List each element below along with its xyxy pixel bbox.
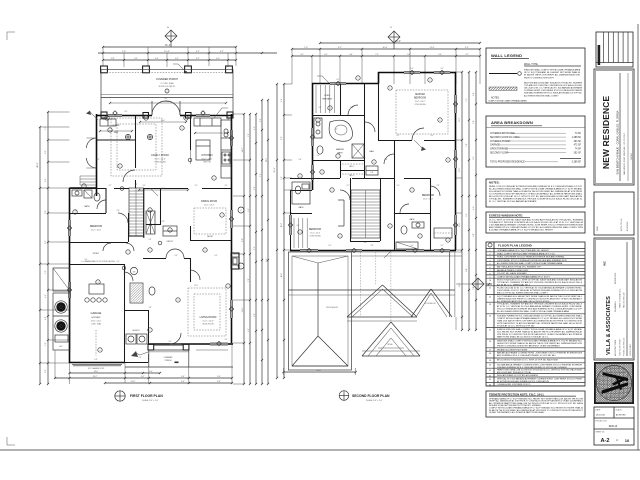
svg-text:5'-2": 5'-2" xyxy=(45,126,47,130)
svg-text:4'-2": 4'-2" xyxy=(196,51,200,53)
svg-text:3,289 SF: 3,289 SF xyxy=(572,162,582,164)
master tub xyxy=(329,120,352,141)
svg-text:LIVING ROOM: LIVING ROOM xyxy=(200,316,217,319)
nook walls xyxy=(190,240,231,242)
svg-text:9: 9 xyxy=(228,286,229,288)
svg-text:4'-4": 4'-4" xyxy=(473,206,475,210)
svg-text:W.I.C.: W.I.C. xyxy=(349,166,355,168)
svg-text:BEDROOM: BEDROOM xyxy=(90,226,102,228)
svg-text:6'-6": 6'-6" xyxy=(438,54,442,56)
svg-text:ARCH. REG. No: ARCH. REG. No xyxy=(620,218,623,231)
washer dryer xyxy=(126,334,136,344)
svg-text:4: 4 xyxy=(448,240,449,242)
svg-text:PRIOR TO CONSTRUCTION NOTIFY: PRIOR TO CONSTRUCTION NOTIFY xyxy=(524,77,554,79)
svg-text:GARAGE: GARAGE xyxy=(490,144,500,147)
kitchen top counter xyxy=(194,118,221,126)
svg-text:3: 3 xyxy=(98,282,99,284)
svg-text:PARTITIONS SHALL BE 2x4 WOOD S: PARTITIONS SHALL BE 2x4 WOOD STUDS AT 16… xyxy=(497,335,549,338)
svg-text:2'-2": 2'-2" xyxy=(109,185,112,187)
svg-text:OF 5.7 SQ FT MIN AND SILL HEIG: OF 5.7 SQ FT MIN AND SILL HEIGHT NOT MOR… xyxy=(524,71,581,74)
butler pantry xyxy=(163,226,177,236)
svg-text:6'-2": 6'-2" xyxy=(329,245,332,247)
FP2 outer walls xyxy=(312,83,330,85)
svg-text:3: 3 xyxy=(182,128,183,130)
svg-text:BATH: BATH xyxy=(85,205,91,208)
svg-text:293 SF: 293 SF xyxy=(574,141,582,143)
svg-text:5: 5 xyxy=(332,190,333,192)
balcony deck lines xyxy=(293,218,295,248)
family room ceiling fans xyxy=(125,134,130,139)
svg-text:COVE CEILING: COVE CEILING xyxy=(414,104,426,106)
svg-text:9406-10: 9406-10 xyxy=(609,426,618,428)
svg-text:6'-0": 6'-0" xyxy=(125,111,128,113)
svg-text:4'-4": 4'-4" xyxy=(45,294,47,298)
svg-text:6'-2": 6'-2" xyxy=(337,79,340,81)
second floor plan title xyxy=(339,391,349,401)
svg-text:5'-2": 5'-2" xyxy=(195,185,198,187)
logo VA letters rotated xyxy=(602,372,629,394)
svg-text:3'-0": 3'-0" xyxy=(143,185,146,187)
svg-text:4'-0": 4'-0" xyxy=(216,58,220,60)
svg-text:8'-0": 8'-0" xyxy=(45,150,47,154)
kitchen right counter xyxy=(221,120,231,178)
svg-text:WALL TYPE: WALL TYPE xyxy=(524,63,538,66)
svg-text:DATE:: DATE: xyxy=(596,408,602,411)
svg-text:23: 23 xyxy=(489,379,491,381)
svg-text:10'-8": 10'-8" xyxy=(281,222,283,227)
svg-text:EGRESS WINDOW NOTE:: EGRESS WINDOW NOTE: xyxy=(489,214,523,218)
svg-text:HALL: HALL xyxy=(370,150,375,153)
svg-text:1: 1 xyxy=(120,166,121,168)
svg-text:11'-2": 11'-2" xyxy=(266,158,268,163)
svg-text:5'-0": 5'-0" xyxy=(134,58,138,60)
svg-text:06-16-94: 06-16-94 xyxy=(596,414,606,416)
svg-text:OF ANY DISCREPANCY ALL INTERIO: OF ANY DISCREPANCY ALL INTERIOR PARTITIO… xyxy=(489,411,545,414)
svg-text:CELLS AT 32 IN. O.C. VERTICAL: CELLS AT 32 IN. O.C. VERTICAL W/ 1 No5 B… xyxy=(524,87,582,90)
svg-text:6'-4": 6'-4" xyxy=(45,178,47,182)
svg-text:MASTER: MASTER xyxy=(415,93,425,96)
svg-text:BE 2x4 WOOD STUDS AT 16 O.C. W: BE 2x4 WOOD STUDS AT 16 O.C. WITH 1/2 GY… xyxy=(489,195,582,198)
svg-text:4'-2": 4'-2" xyxy=(397,135,400,137)
svg-text:7'-2": 7'-2" xyxy=(281,176,283,180)
svg-text:12'-0": 12'-0" xyxy=(194,285,198,287)
interior dim living xyxy=(196,349,228,351)
svg-text:7: 7 xyxy=(338,156,339,158)
AC equipment upper box xyxy=(53,268,70,291)
FP2 right extension lines xyxy=(456,71,462,73)
svg-text:2'-6": 2'-6" xyxy=(225,185,228,187)
svg-text:5'-4": 5'-4" xyxy=(248,208,250,212)
svg-text:FAMILY ROOM: FAMILY ROOM xyxy=(151,154,168,157)
corner mark bottom-left xyxy=(7,437,15,445)
svg-text:4'-6": 4'-6" xyxy=(254,126,256,130)
svg-text:7'-0": 7'-0" xyxy=(304,47,308,49)
svg-text:6'-4": 6'-4" xyxy=(466,213,468,217)
FP2 top dimension lines xyxy=(320,42,480,44)
svg-text:8'-0": 8'-0" xyxy=(466,268,468,272)
svg-text:6'-0": 6'-0" xyxy=(324,54,328,56)
utility door arc xyxy=(124,272,133,281)
hall walls xyxy=(160,188,162,224)
svg-text:21: 21 xyxy=(489,370,491,372)
svg-text:5'-6": 5'-6" xyxy=(260,173,262,177)
misc keyed note circles FP1 xyxy=(108,128,112,132)
svg-text:7: 7 xyxy=(420,236,421,238)
closet rods dashed xyxy=(342,163,364,165)
svg-text:4'-2": 4'-2" xyxy=(441,245,444,247)
svg-text:6'-8": 6'-8" xyxy=(407,54,411,56)
scan edge bottom xyxy=(0,449,640,451)
interior dim lines upper xyxy=(140,121,186,123)
rear door arc xyxy=(170,333,181,344)
svg-text:MIN AND SILL HEIGHT NOT MORE: MIN AND SILL HEIGHT NOT MORE xyxy=(497,348,528,351)
svg-text:SIDE AND FURRING W/ R 4.1 INSU: SIDE AND FURRING W/ R 4.1 INSULATION AND… xyxy=(524,92,582,95)
svg-text:IN. O.C. VERTICAL W/ 1 No5 BAR: IN. O.C. VERTICAL W/ 1 No5 BAR AND ALTER… xyxy=(489,200,537,203)
svg-text:18: 18 xyxy=(489,353,491,355)
svg-text:DEN: DEN xyxy=(114,132,119,134)
svg-text:292 SF: 292 SF xyxy=(574,153,582,155)
svg-text:COURSES HORIZ. JOINT REINF. ST: COURSES HORIZ. JOINT REINF. STUCCO FINIS… xyxy=(524,89,582,92)
svg-text:7: 7 xyxy=(128,252,129,254)
floor plan legend box xyxy=(486,242,585,386)
svg-text:NOTES:: NOTES: xyxy=(491,98,500,100)
logo box xyxy=(594,362,634,404)
front wall pilasters xyxy=(101,112,107,118)
svg-text:COVE CEILING: COVE CEILING xyxy=(309,236,321,238)
svg-text:4'-8": 4'-8" xyxy=(111,58,115,60)
svg-text:WOOD FLOOR: WOOD FLOOR xyxy=(202,324,214,326)
svg-text:5'-4": 5'-4" xyxy=(397,185,400,187)
svg-text:DINING ROOM: DINING ROOM xyxy=(201,201,217,203)
living room door arc xyxy=(190,270,200,280)
svg-text:6'-8": 6'-8" xyxy=(175,255,178,257)
svg-text:16'-2": 16'-2" xyxy=(161,188,166,190)
FP1 right keyed circles xyxy=(238,207,244,213)
svg-text:CONSULTANT:: CONSULTANT: xyxy=(629,343,632,356)
revision table xyxy=(596,32,633,67)
master lav counter xyxy=(314,118,322,138)
svg-text:5'-0": 5'-0" xyxy=(45,369,47,373)
svg-text:PORCH: PORCH xyxy=(165,360,172,362)
svg-text:74 SF: 74 SF xyxy=(575,149,582,151)
den cabinet xyxy=(100,119,116,126)
svg-text:AT 32 IN. O.C. VERTICAL W/ 1: AT 32 IN. O.C. VERTICAL W/ 1 xyxy=(497,284,531,287)
svg-text:15: 15 xyxy=(489,329,491,331)
svg-text:20: 20 xyxy=(489,365,491,367)
svg-text:BEDROOM: BEDROOM xyxy=(414,98,426,100)
FP1 side entry steps xyxy=(80,175,96,177)
svg-text:SECOND FLOOR PLAN: SECOND FLOOR PLAN xyxy=(352,394,390,398)
svg-text:9'-2": 9'-2" xyxy=(338,47,342,49)
svg-text:8: 8 xyxy=(178,300,179,302)
bath2 fixtures xyxy=(401,226,407,234)
svg-text:9'-8": 9'-8" xyxy=(95,359,98,361)
svg-text:10'-8": 10'-8" xyxy=(459,222,461,227)
svg-text:10'-0": 10'-0" xyxy=(281,272,283,277)
svg-text:9'-8": 9'-8" xyxy=(242,238,244,242)
svg-text:COVERED PORCH: COVERED PORCH xyxy=(156,78,178,81)
stair enclosure walls xyxy=(350,178,352,241)
bath1 fixtures xyxy=(94,193,100,201)
svg-text:IN. ABOVE THE FLOOR VERIFY ALL: IN. ABOVE THE FLOOR VERIFY ALL DIMENSION… xyxy=(524,74,581,77)
svg-text:BEDROOM: BEDROOM xyxy=(309,229,321,231)
upper-left closet walls xyxy=(97,139,136,141)
svg-text:5: 5 xyxy=(390,226,391,228)
patio edge line xyxy=(125,366,233,368)
svg-text:INTERIORS: INTERIORS xyxy=(615,272,617,284)
svg-text:8: 8 xyxy=(241,210,242,212)
svg-text:7: 7 xyxy=(222,215,223,217)
FP1 bottom extension lines xyxy=(69,363,71,384)
svg-text:TERMITE PROTECTION NOTE, F.B.C: TERMITE PROTECTION NOTE, F.B.C. 104.1 xyxy=(489,392,544,396)
svg-text:10'-2": 10'-2" xyxy=(93,376,98,378)
living room dashed rug xyxy=(188,288,226,336)
svg-text:5'-2": 5'-2" xyxy=(254,246,256,250)
svg-text:74 SF: 74 SF xyxy=(575,133,582,135)
svg-text:4: 4 xyxy=(84,186,85,188)
architect box xyxy=(594,238,634,360)
svg-text:4'-0": 4'-0" xyxy=(155,58,159,60)
svg-text:A-2: A-2 xyxy=(600,438,609,444)
svg-text:6: 6 xyxy=(205,250,206,252)
svg-text:TOP AND BOT. PROVIDE CONCRETE: TOP AND BOT. PROVIDE CONCRETE BLOCK 8x8x… xyxy=(524,84,582,87)
svg-text:TOTAL PROPOSED RESIDENCE: TOTAL PROPOSED RESIDENCE xyxy=(490,161,525,164)
svg-text:2: 2 xyxy=(150,330,151,332)
FP1 left upper outer wall xyxy=(96,114,98,196)
svg-text:5: 5 xyxy=(170,230,171,232)
FP1 front wall xyxy=(96,115,108,117)
svg-text:5'-6": 5'-6" xyxy=(117,261,120,263)
svg-text:9'-4": 9'-4" xyxy=(181,381,185,383)
garage walls xyxy=(124,264,126,363)
misc keyed note circles FP2 xyxy=(328,106,332,110)
bath1 door arc xyxy=(97,200,106,209)
AC units pad xyxy=(53,293,70,350)
bedroom3 door arc xyxy=(430,186,440,196)
FP1 left lower outer wall xyxy=(69,188,71,220)
roof left hip block xyxy=(288,252,351,370)
svg-text:5'-0": 5'-0" xyxy=(75,210,78,212)
kitchen divider wall xyxy=(190,116,192,150)
svg-text:8: 8 xyxy=(374,162,375,164)
bedroom2 closet xyxy=(343,200,345,226)
svg-text:2'-8": 2'-8" xyxy=(227,119,230,121)
pantry shelves xyxy=(146,211,155,234)
svg-text:2'-6": 2'-6" xyxy=(139,357,142,359)
svg-text:21'-2" x 13'-4": 21'-2" x 13'-4" xyxy=(202,321,213,323)
svg-text:W.I.C.: W.I.C. xyxy=(349,175,355,177)
master bath walls xyxy=(312,160,364,162)
svg-text:BATH: BATH xyxy=(299,206,304,209)
kitchen island xyxy=(196,140,210,160)
svg-text:11'-2" x 12'-0": 11'-2" x 12'-0" xyxy=(91,230,102,232)
FP2 window tags xyxy=(336,81,340,85)
roof middle entry hip xyxy=(347,285,417,321)
svg-text:6'-6": 6'-6" xyxy=(248,328,250,332)
svg-text:FIRST FLOOR PLAN: FIRST FLOOR PLAN xyxy=(130,394,163,398)
svg-text:FAX: 305 666 1448: FAX: 305 666 1448 xyxy=(623,293,626,308)
svg-text:4'-0": 4'-0" xyxy=(473,92,475,96)
svg-text:SILL HEIGHT NOT MORE THAN 44 I: SILL HEIGHT NOT MORE THAN 44 IN. ABOVE T… xyxy=(489,190,582,193)
svg-text:3: 3 xyxy=(300,232,301,234)
shower xyxy=(352,144,364,158)
bath1 walls xyxy=(105,188,107,213)
svg-text:12'-0" x 13'-4": 12'-0" x 13'-4" xyxy=(204,205,215,207)
svg-text:COVERED ENTRANCE: COVERED ENTRANCE xyxy=(490,132,515,135)
svg-text:AS NOTED: AS NOTED xyxy=(616,413,626,416)
svg-text:COVERED: COVERED xyxy=(164,357,174,359)
kitchen arch opening xyxy=(190,150,192,164)
FP2 right tick mark symbol xyxy=(486,283,492,285)
svg-text:7'-6": 7'-6" xyxy=(122,51,127,53)
second floor plan group xyxy=(274,27,492,402)
svg-text:3: 3 xyxy=(322,172,323,174)
svg-text:16'-0": 16'-0" xyxy=(94,371,99,373)
svg-text:19: 19 xyxy=(489,360,491,362)
bedroom1 door arc xyxy=(118,213,128,223)
svg-text:FLOOR PLAN LEGEND: FLOOR PLAN LEGEND xyxy=(498,244,533,248)
family room dashed ceiling xyxy=(111,118,162,176)
svg-text:2'-8": 2'-8" xyxy=(117,210,120,212)
svg-text:2'-6": 2'-6" xyxy=(317,155,320,157)
wic walls xyxy=(340,160,342,178)
svg-text:A CLEAR OPENABLE AREA OF 5.7 S: A CLEAR OPENABLE AREA OF 5.7 SQ FT MIN A… xyxy=(489,229,554,232)
svg-text:14'-2": 14'-2" xyxy=(242,147,244,152)
family room door arc xyxy=(123,170,135,182)
svg-text:ROOF BELOW: ROOF BELOW xyxy=(425,303,436,305)
grid bubble diamond FP1 xyxy=(165,30,177,42)
bedroom1 walls xyxy=(70,242,129,244)
study room walls xyxy=(70,264,125,266)
svg-text:5: 5 xyxy=(150,250,151,252)
svg-text:28'-4": 28'-4" xyxy=(395,40,401,43)
svg-text:4'-6": 4'-6" xyxy=(441,68,444,70)
svg-text:PROJECT No:: PROJECT No: xyxy=(596,420,608,422)
svg-text:3'-6": 3'-6" xyxy=(149,239,152,241)
svg-text:CER. TILE: CER. TILE xyxy=(203,162,211,164)
svg-text:BD. ALL EGRESS WINDOWS SHALL C: BD. ALL EGRESS WINDOWS SHALL COMPLY WITH… xyxy=(489,187,582,190)
wall type 2 symbol xyxy=(489,87,517,90)
svg-text:3'-0": 3'-0" xyxy=(225,339,228,341)
svg-text:11'-2": 11'-2" xyxy=(459,117,461,122)
svg-text:2: 2 xyxy=(186,118,187,120)
garage door lines xyxy=(72,363,122,365)
master toilet xyxy=(317,146,323,154)
svg-text:SHEET No:: SHEET No: xyxy=(596,431,606,433)
FP1 bottom dimension lines xyxy=(70,372,161,374)
svg-text:BD. ALL EGRESS WINDOWS SHALL C: BD. ALL EGRESS WINDOWS SHALL COMPLY WITH… xyxy=(497,310,569,313)
svg-text:ALL INTERIOR PARTITIONS SHALL: ALL INTERIOR PARTITIONS SHALL BE 2x4 WOO… xyxy=(497,300,550,303)
rear porch dash mark xyxy=(175,362,179,364)
svg-text:10: 10 xyxy=(625,438,630,443)
svg-text:BEDROOM: BEDROOM xyxy=(422,195,434,197)
svg-text:8'-8": 8'-8" xyxy=(281,136,283,140)
svg-text:5'-8": 5'-8" xyxy=(254,313,256,317)
FP1 right outer wall xyxy=(231,114,233,130)
svg-text:BATH: BATH xyxy=(410,218,415,221)
FP2 right dimension lines xyxy=(461,72,463,330)
svg-text:5'-2": 5'-2" xyxy=(465,47,469,49)
svg-text:7'-2": 7'-2" xyxy=(466,98,468,102)
svg-text:FOYER: FOYER xyxy=(113,125,120,127)
svg-text:ROOF BELOW: ROOF BELOW xyxy=(326,307,338,309)
svg-text:19'-8" x 12'-0": 19'-8" x 12'-0" xyxy=(91,321,102,323)
svg-text:4: 4 xyxy=(300,176,301,178)
svg-text:SLOPE 1/4" PER FT.: SLOPE 1/4" PER FT. xyxy=(159,86,176,88)
FP2 bottom extension lines xyxy=(283,368,285,375)
svg-text:7'-2": 7'-2" xyxy=(248,133,250,137)
svg-text:COMPLY WITH A CLEAR OPENABLE A: COMPLY WITH A CLEAR OPENABLE AREA xyxy=(488,100,527,103)
roof middle lower pyramid xyxy=(362,322,420,356)
FP1 window tags xyxy=(113,111,117,115)
svg-text:5'-0": 5'-0" xyxy=(45,270,47,274)
title block strip xyxy=(594,32,634,445)
svg-text:13'-6": 13'-6" xyxy=(242,307,244,312)
svg-text:6'-0": 6'-0" xyxy=(431,135,434,137)
svg-text:2: 2 xyxy=(318,120,319,122)
svg-text:5'-2": 5'-2" xyxy=(465,54,469,56)
svg-text:2'-4": 2'-4" xyxy=(85,259,88,261)
roof right hip xyxy=(411,252,455,317)
svg-text:48'-6": 48'-6" xyxy=(37,162,39,168)
svg-text:6'-2": 6'-2" xyxy=(45,240,47,244)
fireplace xyxy=(231,253,239,269)
svg-text:6'-2": 6'-2" xyxy=(473,156,475,160)
notes box xyxy=(486,179,585,207)
svg-text:NOTES:: NOTES: xyxy=(489,181,500,185)
svg-text:11'-6": 11'-6" xyxy=(131,381,136,383)
svg-text:SCALE: 1/4" = 1'-0": SCALE: 1/4" = 1'-0" xyxy=(366,399,383,402)
svg-text:2: 2 xyxy=(390,88,391,90)
svg-text:TERRACE: TERRACE xyxy=(322,98,333,101)
svg-text:6'-0": 6'-0" xyxy=(45,210,47,214)
wall legend box xyxy=(486,48,585,103)
svg-text:WINDOWS SHALL COMPLY WITH A CL: WINDOWS SHALL COMPLY WITH A CLEAR OPENAB… xyxy=(524,69,580,72)
bath2 door arc xyxy=(400,204,409,213)
svg-text:2: 2 xyxy=(107,118,108,120)
svg-text:4'-8": 4'-8" xyxy=(162,221,165,223)
svg-text:3'-0": 3'-0" xyxy=(319,107,322,109)
svg-text:PRIOR TO CONSTRUCTION NOTIFY A: PRIOR TO CONSTRUCTION NOTIFY ARCHITECT O… xyxy=(497,345,561,348)
svg-text:WH: WH xyxy=(133,271,136,273)
svg-text:KITCHEN: KITCHEN xyxy=(202,154,213,157)
svg-text:472 SF: 472 SF xyxy=(574,145,582,147)
scan edge right xyxy=(637,24,639,450)
garage beam rect xyxy=(89,284,104,294)
svg-text:4: 4 xyxy=(100,350,101,352)
grid bubble diamond FP2 xyxy=(388,31,400,43)
termite protection note box xyxy=(486,391,585,417)
svg-text:2'-8": 2'-8" xyxy=(149,307,152,309)
FP1 top dimension lines xyxy=(103,46,236,48)
svg-text:RIDGE: RIDGE xyxy=(387,344,392,346)
svg-text:OPEN TERRACE: OPEN TERRACE xyxy=(490,148,509,151)
svg-text:9'-6": 9'-6" xyxy=(266,258,268,262)
svg-text:5'-8": 5'-8" xyxy=(299,159,302,161)
svg-text:NOOK: NOOK xyxy=(207,236,213,238)
svg-text:ARCHITECTURE: ARCHITECTURE xyxy=(614,339,617,356)
bath2 walls xyxy=(394,213,430,215)
svg-text:EACH SIDE AND SOUND BATT INSUL: EACH SIDE AND SOUND BATT INSULATION TYPI… xyxy=(524,82,582,85)
egress window note box xyxy=(486,212,585,233)
svg-text:5'-6": 5'-6" xyxy=(45,342,47,346)
svg-text:5'-0": 5'-0" xyxy=(169,341,172,343)
svg-text:AND FURRING W/ R 4.1 INSULATIO: AND FURRING W/ R 4.1 INSULATION AND 1/2 … xyxy=(497,354,557,357)
svg-text:4'-0": 4'-0" xyxy=(215,255,218,257)
svg-text:6: 6 xyxy=(440,120,441,122)
FP2 bottom dimension lines xyxy=(284,371,356,373)
svg-text:6'-8": 6'-8" xyxy=(473,120,475,124)
